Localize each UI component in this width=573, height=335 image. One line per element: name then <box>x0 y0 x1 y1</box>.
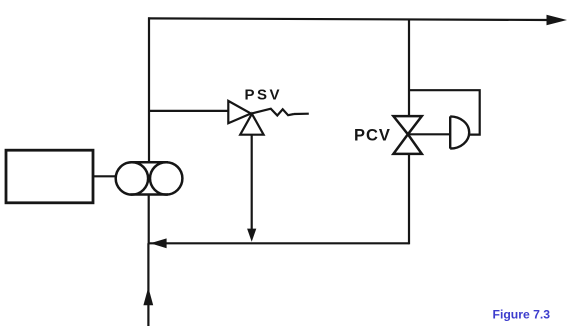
arrowhead flow out right <box>547 15 568 25</box>
control valve PCV (bowtie lower triangle) <box>393 134 421 154</box>
wire PSV outlet down <box>251 135 253 231</box>
wire main riser lower (pump to return junction) <box>148 195 150 245</box>
control valve PCV (bowtie upper triangle) <box>393 116 421 134</box>
tank (left box) <box>6 150 93 203</box>
wire main riser upper (from header down to pump) <box>148 17 150 163</box>
pump P (rotary pump: left circle) <box>116 162 148 194</box>
pump P bottom tangent line <box>131 193 169 196</box>
wire top header line <box>148 18 549 20</box>
wire tank to pump <box>93 175 117 177</box>
svg-text:Figure 7.3: Figure 7.3 <box>493 307 551 321</box>
wire PSV inlet branch <box>149 110 229 112</box>
wire bottom return line <box>149 242 410 244</box>
arrowhead inlet flow up <box>143 287 153 305</box>
wire inlet bottom vertical <box>147 243 149 326</box>
wire PCV branch lower (valve down to return line) <box>408 154 410 244</box>
pump P right circle <box>150 162 182 194</box>
pump P top tangent line <box>131 161 169 164</box>
wire pilot loop <box>409 90 480 134</box>
arrowhead PSV outlet into return line <box>247 229 256 242</box>
wire valve to actuator <box>408 133 450 135</box>
relief valve PSV (angle valve: horizontal triangle) <box>228 101 251 123</box>
svg-text:PSV: PSV <box>245 87 283 104</box>
svg-text:PCV: PCV <box>354 127 391 145</box>
relief valve PSV vertical triangle <box>240 114 263 135</box>
arrowhead return flow left <box>150 238 166 248</box>
wire PCV branch upper (header down to valve) <box>408 19 410 117</box>
wire PSV spring tail <box>294 113 309 116</box>
spring of PSV <box>252 109 294 116</box>
actuator diaphragm (D shape) <box>450 116 469 148</box>
